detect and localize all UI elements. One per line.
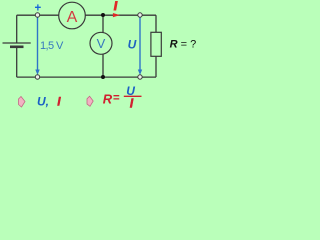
bullet diamond 2 (87, 96, 93, 106)
wire right upper (155, 15, 157, 33)
arrow U resistor (138, 18, 142, 76)
node bottom right (138, 75, 142, 79)
wire left lower (16, 47, 18, 77)
svg-text:V: V (97, 36, 106, 51)
wire right lower (155, 56, 157, 78)
battery cell (3, 43, 31, 47)
node top right (138, 13, 142, 17)
svg-text:R: R (103, 91, 113, 106)
arrow U source (1,5V) (35, 18, 39, 76)
wire top (17, 14, 156, 16)
junction dot top (101, 13, 105, 17)
svg-text:1,5 V: 1,5 V (40, 40, 64, 52)
node top left (35, 13, 39, 17)
svg-text:=: = (113, 93, 120, 105)
svg-text:I: I (130, 96, 134, 110)
svg-text:A: A (67, 9, 78, 26)
voltmeter V (90, 32, 112, 54)
junction dot bottom (101, 75, 105, 79)
svg-text:U: U (128, 37, 137, 51)
current arrow I (113, 13, 120, 17)
formula fraction bar (124, 95, 142, 97)
svg-text:+: + (34, 3, 41, 15)
wire left (16, 15, 18, 43)
ammeter A (59, 2, 86, 29)
resistor R (151, 32, 161, 56)
wire voltmeter bottom (102, 54, 104, 77)
svg-text:R = ?: R = ? (170, 39, 197, 51)
node bottom left (35, 75, 39, 79)
wire voltmeter top (102, 15, 104, 33)
wire bottom (17, 76, 156, 78)
bullet diamond 1 (19, 97, 26, 108)
